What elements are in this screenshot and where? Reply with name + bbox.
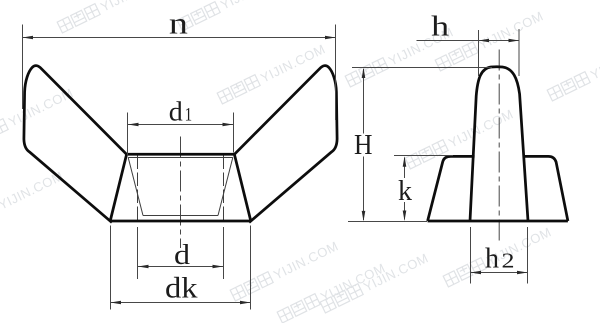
dimension d: extension lines [138, 227, 224, 279]
svg-text:d: d [169, 96, 184, 126]
inner chamfer bottom line [143, 215, 218, 217]
dimension h: extension lines [479, 29, 520, 76]
front view centre line (chain) [180, 137, 182, 249]
dimension dk: line [111, 302, 251, 304]
svg-text:H: H [354, 130, 373, 161]
svg-text:h: h [431, 12, 449, 43]
dimension d1: line [128, 124, 234, 126]
dimension h2: extension lines [471, 227, 528, 284]
dimension h: line [417, 40, 520, 42]
dimension dk: arrowheads [111, 301, 122, 305]
dimension h2: line [471, 272, 528, 274]
base bottom edge [428, 220, 568, 223]
dimension h2: arrowheads [471, 271, 482, 275]
thread hole hidden line left [137, 156, 139, 221]
inner chamfer right slant [218, 158, 233, 216]
left wing outline [24, 66, 127, 223]
wing blade outline [470, 67, 528, 221]
right wing outline [234, 66, 337, 223]
inner chamfer top line [128, 157, 233, 159]
dimension n: line [23, 37, 336, 39]
dimension H: arrowheads [362, 68, 366, 79]
base left outline [428, 156, 475, 221]
dimension d: arrowheads [138, 265, 149, 269]
dimension H: bottom reference line [348, 221, 427, 223]
dimension d: line [138, 266, 224, 268]
base right outline [524, 156, 568, 221]
inner chamfer left slant [128, 158, 143, 216]
svg-text:2: 2 [502, 248, 515, 272]
dimension h: arrowheads [479, 39, 490, 43]
svg-text:h: h [485, 243, 499, 274]
thread hole hidden line right [223, 156, 225, 221]
dimension k: line [404, 158, 406, 220]
side view centre line (chain) [498, 50, 500, 241]
svg-text:d: d [174, 239, 191, 271]
dimension k: arrowheads [403, 156, 407, 167]
dimension H: top reference line [352, 67, 492, 69]
svg-text:k: k [398, 175, 412, 207]
dimension dk: extension lines [111, 226, 251, 310]
dimension H: line [363, 69, 365, 220]
dimension n: arrowheads [23, 36, 34, 40]
dimension d1: extension lines [128, 113, 234, 157]
dimension d1: arrowheads [128, 123, 139, 127]
svg-text:dk: dk [165, 271, 198, 304]
nut body trapezoid [110, 154, 251, 221]
dimension n: extension lines [23, 25, 336, 121]
dimension k: top reference line [394, 155, 453, 157]
svg-text:1: 1 [185, 104, 193, 125]
svg-text:n: n [169, 6, 189, 41]
